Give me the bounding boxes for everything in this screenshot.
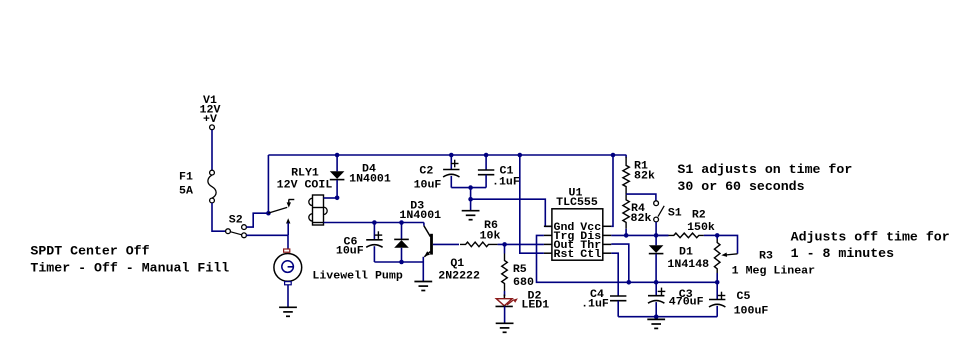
svg-text:Q1: Q1 xyxy=(450,258,464,270)
wire Vcc pin to rail xyxy=(611,155,613,226)
svg-text:Adjusts off time for: Adjusts off time for xyxy=(791,230,950,245)
relay coil RLY1 12V COIL xyxy=(277,168,333,226)
note adjusts off time xyxy=(791,230,950,261)
wire C5 bottom stem xyxy=(716,306,718,317)
note S1 adjusts xyxy=(677,162,852,194)
relay NO contact arrow xyxy=(286,218,290,235)
capacitor C5 100uF xyxy=(709,291,768,318)
wire C6 bottom stem xyxy=(373,246,375,262)
wire S2 down-throw to pump xyxy=(246,234,288,236)
node Rst rail tap xyxy=(518,153,523,158)
resistor R6 10k xyxy=(460,220,501,247)
svg-text:470uF: 470uF xyxy=(669,297,704,309)
svg-text:30 or 60 seconds: 30 or 60 seconds xyxy=(677,179,804,194)
livewell pump motor xyxy=(274,249,403,285)
svg-text:150k: 150k xyxy=(687,222,715,234)
svg-text:1 Meg Linear: 1 Meg Linear xyxy=(732,265,815,277)
resistor R1 82k xyxy=(623,157,656,194)
node D1 bottom on Trg xyxy=(654,280,659,285)
svg-text:5A: 5A xyxy=(179,186,194,198)
svg-text:Timer - Off - Manual Fill: Timer - Off - Manual Fill xyxy=(30,260,229,275)
wire rail to R1 xyxy=(625,155,627,158)
svg-text:Rst: Rst xyxy=(554,249,575,261)
node Vcc rail tap xyxy=(611,153,616,158)
diode D4 1N4001 xyxy=(330,164,391,186)
wire D4 to coil node xyxy=(336,180,338,198)
relay blade xyxy=(268,207,287,213)
svg-text:TLC555: TLC555 xyxy=(556,197,598,209)
svg-text:10k: 10k xyxy=(480,230,502,242)
wire pump to ground xyxy=(287,285,289,308)
ground pump xyxy=(279,307,297,316)
node C3 bottom on rail xyxy=(654,314,659,319)
potentiometer R3 1 Meg Linear xyxy=(714,235,815,277)
wire D3 top stem xyxy=(401,223,403,240)
svg-text:82k: 82k xyxy=(631,213,653,225)
LED D2 LED1 xyxy=(496,291,550,312)
wire ground to IC Gnd pin xyxy=(471,199,552,226)
wire C1 top stem xyxy=(485,155,487,170)
wire Trg pin run xyxy=(537,235,718,282)
ground main xyxy=(647,319,665,328)
wire coil top to D4 xyxy=(324,197,338,199)
node R3 top xyxy=(715,233,720,238)
svg-text:S1: S1 xyxy=(668,208,682,220)
node C6 top xyxy=(372,220,377,225)
svg-text:SPDT Center Off: SPDT Center Off xyxy=(30,244,149,259)
wire Ctl pin to C4 xyxy=(611,253,618,296)
wire D1 to Trg node xyxy=(655,254,657,282)
wire C3 top stem xyxy=(655,282,657,295)
svg-text:F1: F1 xyxy=(179,172,193,184)
svg-text:RLY1: RLY1 xyxy=(291,168,319,180)
wire Q1 emitter to ground xyxy=(422,257,424,282)
fuse F1 5A xyxy=(179,170,216,203)
svg-text:1N4001: 1N4001 xyxy=(399,210,441,222)
wire C5 top stem xyxy=(716,282,718,299)
ground LED xyxy=(496,323,514,332)
svg-text:10uF: 10uF xyxy=(336,246,364,258)
capacitor C1 .1uF xyxy=(478,166,520,189)
wire S1 to Dis node xyxy=(655,222,657,236)
wire C1 bottom stem xyxy=(485,175,487,188)
capacitor C6 10uF xyxy=(336,231,383,257)
diode D1 1N4148 xyxy=(649,245,709,271)
svg-text:.1uF: .1uF xyxy=(581,299,609,311)
node S1/D1 on Dis xyxy=(654,233,659,238)
svg-text:82k: 82k xyxy=(634,170,656,182)
node R4 bottom on Dis xyxy=(624,233,629,238)
wire Q1 base lead xyxy=(433,243,459,245)
svg-text:C2: C2 xyxy=(419,166,433,178)
svg-text:LED1: LED1 xyxy=(521,299,549,311)
transistor Q1 2N2222 xyxy=(424,223,480,283)
wire +12V rail riser xyxy=(267,155,269,213)
wire D3 bottom stem xyxy=(401,248,403,262)
wire R2 to R3 top xyxy=(656,234,717,236)
node Thr-Trg tie xyxy=(627,280,632,285)
wire Dis to D1 xyxy=(655,235,657,245)
svg-text:100uF: 100uF xyxy=(734,306,769,318)
wire R1R4 tap to S1 xyxy=(626,194,656,200)
svg-text:Livewell Pump: Livewell Pump xyxy=(312,270,402,282)
wire rail to Rst pin xyxy=(520,155,544,253)
resistor R5 680 xyxy=(502,254,534,292)
svg-text:1N4148: 1N4148 xyxy=(667,259,709,271)
wire bottom ground rail xyxy=(618,316,717,318)
node R3 bottom / C5 top xyxy=(715,280,720,285)
svg-text:+V: +V xyxy=(203,114,218,126)
wire V1 to fuse xyxy=(211,130,213,170)
node D4 top on rail xyxy=(335,153,340,158)
wire caps bottom join xyxy=(451,187,486,189)
svg-text:680: 680 xyxy=(513,277,534,289)
node C2 top xyxy=(449,153,454,158)
wire C2 top stem xyxy=(450,155,452,170)
wire fuse to S2 common xyxy=(212,203,226,231)
svg-text:2N2222: 2N2222 xyxy=(438,271,480,283)
wire +12V top rail xyxy=(268,154,626,156)
wire R6 to Out pin xyxy=(498,243,544,245)
switch S1 xyxy=(654,201,682,222)
wire LED to ground xyxy=(504,306,506,323)
wire R5 to LED xyxy=(503,291,505,299)
note SPDT center off xyxy=(30,244,229,276)
svg-text:1N4001: 1N4001 xyxy=(349,174,391,186)
node caps bottom junction xyxy=(468,185,473,190)
ground filter caps xyxy=(462,211,480,220)
wire R4 to Dis node xyxy=(625,229,627,236)
switch S2 xyxy=(226,215,247,238)
svg-text:D1: D1 xyxy=(679,247,693,259)
wire S2 up-throw to relay common xyxy=(246,213,268,227)
wire Thr pin tie xyxy=(611,244,629,282)
svg-text:.1uF: .1uF xyxy=(492,177,520,189)
node R5 tap xyxy=(502,242,507,247)
capacitor C4 .1uF xyxy=(581,289,626,311)
wire rail to D4 xyxy=(336,155,338,171)
svg-text:R3: R3 xyxy=(759,251,773,263)
svg-text:Ctl: Ctl xyxy=(580,249,601,261)
svg-text:R2: R2 xyxy=(692,210,706,222)
svg-text:S2: S2 xyxy=(229,215,243,227)
wire coil bottom to Q1 collector xyxy=(324,222,424,224)
svg-text:S1 adjusts on time for: S1 adjusts on time for xyxy=(677,162,852,177)
wire NO contact to pump motor xyxy=(287,235,289,249)
power terminal V1 +V xyxy=(200,95,222,130)
node coil top / D4 cathode xyxy=(335,196,340,201)
op-amp U1 TLC555 timer IC xyxy=(544,188,611,261)
wire emitter bottom rail xyxy=(374,261,423,263)
wire R5 top stem xyxy=(504,244,506,253)
ground Q1 emitter xyxy=(414,282,432,291)
svg-text:C5: C5 xyxy=(737,291,751,303)
diode D3 1N4001 xyxy=(394,201,441,248)
relay NC contact xyxy=(287,200,295,208)
wire R3 bottom stem xyxy=(716,273,718,282)
svg-text:1 - 8 minutes: 1 - 8 minutes xyxy=(791,246,894,261)
wire R3 top stem xyxy=(716,235,718,239)
wire ground tap stem xyxy=(470,199,472,211)
node ground tap junction xyxy=(468,197,473,202)
wire caps junction drop xyxy=(470,188,472,200)
resistor R4 82k xyxy=(623,194,652,229)
wire Dis pin run xyxy=(611,234,668,236)
svg-text:12V COIL: 12V COIL xyxy=(277,180,333,192)
node relay common junction xyxy=(266,211,271,216)
node C1 top xyxy=(484,153,489,158)
svg-text:10uF: 10uF xyxy=(414,180,442,192)
wire C2 bottom stem xyxy=(450,176,452,188)
node D3 top xyxy=(399,220,404,225)
resistor R2 150k xyxy=(669,210,716,238)
capacitor C3 470uF xyxy=(648,288,704,309)
node D3 bottom xyxy=(399,260,404,265)
wire C6 top stem xyxy=(373,223,375,240)
wire C3 bottom stem xyxy=(655,302,657,317)
capacitor C2 10uF xyxy=(414,160,460,192)
wire C4 bottom stem xyxy=(617,301,619,317)
svg-text:R5: R5 xyxy=(513,264,527,276)
